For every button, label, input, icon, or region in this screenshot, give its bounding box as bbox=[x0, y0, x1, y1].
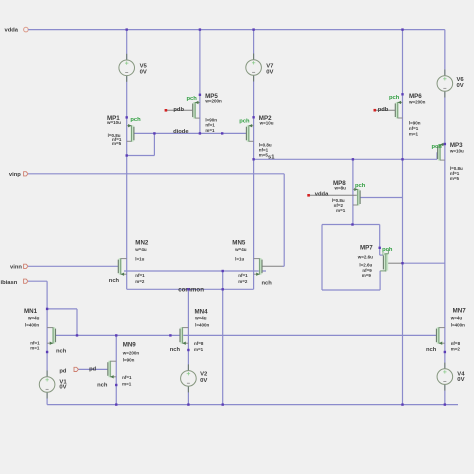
svg-text:s1: s1 bbox=[268, 154, 275, 160]
svg-text:vdda: vdda bbox=[315, 192, 329, 198]
junction MP7 bulk/s1 column bbox=[401, 262, 403, 264]
junction bulk tie/common column bbox=[222, 270, 224, 272]
wire vss rail bbox=[47, 404, 458, 406]
svg-text:m=9: m=9 bbox=[362, 273, 372, 278]
io pin vdda bbox=[24, 27, 29, 32]
svg-text:m=5: m=5 bbox=[112, 141, 122, 146]
svg-text:V2: V2 bbox=[200, 371, 208, 377]
junction MN1 source pin bbox=[46, 351, 48, 353]
transistor MN9 bbox=[108, 361, 116, 379]
svg-text:pd: pd bbox=[89, 367, 97, 373]
junction MP1 drain loop bbox=[126, 154, 128, 156]
junction bias/MN9 drain bbox=[115, 334, 117, 336]
svg-text:nf=8: nf=8 bbox=[194, 341, 204, 346]
wire V7 column top bbox=[253, 30, 255, 60]
wire vinp vertical jog bbox=[283, 174, 285, 266]
voltage source V5 bbox=[119, 54, 135, 82]
svg-text:pd: pd bbox=[59, 369, 67, 375]
io pin vinp bbox=[24, 172, 28, 176]
transistor MP5 bbox=[193, 101, 200, 119]
svg-text:l=1u: l=1u bbox=[135, 256, 144, 261]
wire bulk tie bbox=[124, 270, 266, 272]
svg-text:w=4u: w=4u bbox=[27, 316, 40, 321]
svg-text:0V: 0V bbox=[266, 69, 273, 75]
wire diode net bbox=[134, 132, 247, 134]
svg-text:m=1: m=1 bbox=[336, 208, 346, 213]
wire box bottom edge bbox=[322, 289, 380, 291]
svg-text:pdb: pdb bbox=[173, 107, 184, 113]
wire V4 to rail bbox=[444, 384, 446, 404]
wire pd to MN9 gate bbox=[79, 368, 109, 370]
svg-text:vinn: vinn bbox=[10, 265, 22, 271]
junction MN4 source pin bbox=[187, 349, 189, 351]
svg-text:0V: 0V bbox=[200, 378, 207, 384]
svg-text:m=1: m=1 bbox=[205, 128, 215, 133]
svg-text:0V: 0V bbox=[457, 377, 464, 383]
svg-text:nf=1: nf=1 bbox=[122, 375, 132, 380]
transistor MN2 bbox=[118, 258, 126, 276]
svg-text:w=10u: w=10u bbox=[449, 149, 464, 154]
wire V2 to rail bbox=[187, 386, 189, 404]
svg-text:nch: nch bbox=[426, 347, 437, 353]
svg-text:common: common bbox=[178, 286, 204, 293]
svg-text:l=400n: l=400n bbox=[451, 323, 465, 328]
wire MP1 gate loop vertical bbox=[153, 133, 155, 155]
svg-text:0V: 0V bbox=[457, 83, 464, 89]
svg-text:0V: 0V bbox=[140, 70, 147, 76]
wire vinp to MN5 gate pin bbox=[283, 265, 285, 267]
svg-text:nf=1: nf=1 bbox=[238, 273, 248, 278]
svg-text:m=2: m=2 bbox=[135, 279, 145, 284]
junction diode/MP2 gate pin bbox=[221, 132, 223, 134]
svg-text:m=2: m=2 bbox=[238, 279, 248, 284]
svg-text:l=90n: l=90n bbox=[123, 357, 135, 362]
svg-text:m=2: m=2 bbox=[451, 346, 461, 351]
svg-text:pch: pch bbox=[382, 247, 393, 253]
svg-text:l=90n: l=90n bbox=[409, 121, 421, 126]
svg-text:m=1: m=1 bbox=[194, 347, 204, 352]
junction MP5 source pin bbox=[199, 94, 201, 96]
svg-text:pch: pch bbox=[355, 183, 366, 189]
svg-text:w=2.6u: w=2.6u bbox=[357, 255, 373, 260]
junction common/vss column bbox=[222, 288, 224, 290]
transistor MN7 bbox=[436, 327, 444, 345]
wire vinn to MN2 gate bbox=[28, 265, 119, 267]
wire box right upper (MP7 gate) bbox=[379, 225, 381, 256]
svg-text:MP7: MP7 bbox=[360, 245, 373, 252]
wire MN1 diode loop top bbox=[47, 308, 77, 310]
wire s1 to vss column bbox=[402, 159, 404, 404]
junction s1/MP8 source bbox=[352, 158, 354, 160]
transistor MP6 bbox=[395, 101, 402, 119]
red pin dot pdb at MP5 bbox=[165, 109, 168, 112]
junction box top/MP8 drain bbox=[351, 223, 353, 225]
svg-text:diode: diode bbox=[173, 129, 189, 135]
svg-text:w=10u: w=10u bbox=[259, 121, 274, 126]
transistor MP7 bbox=[380, 249, 388, 272]
junction MP3 source pin bbox=[444, 143, 446, 145]
junction vdda/V5 bbox=[126, 28, 128, 30]
junction bias/MN4 gate bbox=[169, 334, 171, 336]
wire MP7 bulk stub bbox=[387, 262, 403, 264]
red pin dot pdb at MP6 bbox=[374, 109, 377, 112]
voltage source V2 bbox=[181, 364, 197, 392]
svg-text:w=10u: w=10u bbox=[106, 120, 121, 125]
junction MN1 gate/bias bbox=[76, 334, 78, 336]
junction s1/MP2 drain bbox=[252, 158, 254, 160]
svg-text:nf=1: nf=1 bbox=[205, 123, 215, 128]
junction box right/MP7 gate bbox=[379, 247, 381, 249]
junction MP6 source pin bbox=[401, 93, 403, 95]
transistor MP3 bbox=[438, 143, 445, 161]
svg-text:m=5: m=5 bbox=[450, 176, 460, 181]
io pin pd bbox=[74, 367, 78, 371]
wire MN7 to V4 bbox=[444, 352, 446, 369]
wire MP1 gate loop horizontal bbox=[127, 155, 155, 157]
svg-text:nf=1: nf=1 bbox=[135, 273, 145, 278]
svg-text:w=4u: w=4u bbox=[134, 247, 147, 252]
voltage source V4 bbox=[437, 363, 453, 391]
io pin ibiasn bbox=[24, 279, 28, 283]
svg-text:MN7: MN7 bbox=[453, 307, 467, 314]
svg-text:nch: nch bbox=[170, 347, 181, 353]
junction vss/MN9 bbox=[115, 403, 117, 405]
svg-text:w=4u: w=4u bbox=[234, 247, 247, 252]
wire MP2/MN5 column bbox=[253, 75, 255, 289]
wire V1 to rail bbox=[46, 392, 48, 404]
wire MP8 source column bbox=[352, 159, 354, 224]
junction diode/MP1 loop bbox=[153, 132, 155, 134]
junction common/MN4 drain bbox=[187, 288, 189, 290]
svg-text:nch: nch bbox=[109, 278, 120, 284]
wire MN1 diode loop down bbox=[76, 309, 78, 336]
svg-text:nch: nch bbox=[97, 383, 108, 389]
MN5 gate pin bbox=[262, 265, 283, 267]
svg-text:ibiasn: ibiasn bbox=[1, 280, 18, 286]
wire MP1/MN2 column bbox=[126, 76, 128, 290]
svg-text:w=8u: w=8u bbox=[334, 186, 347, 191]
wire ibiasn down bbox=[46, 281, 48, 309]
svg-text:MN4: MN4 bbox=[195, 308, 209, 315]
wire MP8 gate bbox=[360, 197, 402, 199]
svg-text:m=1: m=1 bbox=[122, 382, 132, 387]
wire box right lower (MP7 drain) bbox=[379, 271, 381, 290]
wire vinp horizontal bbox=[28, 173, 284, 175]
wire MP7 bulk to right column bbox=[403, 262, 445, 264]
wire MN4 column bbox=[187, 289, 189, 350]
wire ibiasn horizontal bbox=[28, 280, 47, 282]
junction MN7 source pin bbox=[444, 351, 446, 353]
wire MN9 column bbox=[115, 335, 117, 404]
wire bias net bbox=[56, 334, 437, 336]
wire MN1 column bbox=[46, 309, 48, 352]
transistor MP8 bbox=[353, 188, 360, 206]
wire common to vss column bbox=[222, 271, 224, 405]
wire MP7 gate jog bbox=[380, 254, 384, 256]
svg-text:MN5: MN5 bbox=[232, 239, 246, 246]
svg-text:w=200n: w=200n bbox=[408, 99, 426, 104]
svg-text:pch: pch bbox=[239, 119, 250, 125]
wire V5 column top bbox=[126, 30, 128, 60]
junction vss/s1 column bbox=[401, 403, 403, 405]
wire MP6 gate pin to pdb bbox=[375, 109, 395, 111]
svg-text:vinp: vinp bbox=[9, 172, 21, 178]
svg-text:m=5: m=5 bbox=[259, 153, 269, 158]
svg-text:m=1: m=1 bbox=[30, 346, 40, 351]
voltage source V1 bbox=[39, 371, 55, 399]
junction vdda/MP5 bbox=[199, 28, 201, 30]
io pin vinn bbox=[24, 264, 28, 268]
voltage source V7 bbox=[246, 54, 262, 82]
wire V6 to MP3/MN7 column bbox=[444, 91, 446, 352]
wire MP6 column bbox=[402, 30, 404, 160]
junction MN9 source pin bbox=[115, 384, 117, 386]
wire MN1 to V1 bbox=[46, 352, 48, 377]
svg-text:0V: 0V bbox=[59, 384, 66, 390]
svg-text:pch: pch bbox=[432, 144, 443, 150]
svg-text:nch: nch bbox=[262, 281, 273, 287]
wire MP5 column bbox=[199, 30, 201, 134]
junction MP2 source pin bbox=[252, 116, 254, 118]
svg-text:nf=8: nf=8 bbox=[451, 341, 461, 346]
svg-text:nf=1: nf=1 bbox=[409, 126, 419, 131]
red pin dot vdda at MP8 bulk bbox=[307, 194, 310, 197]
wire MP3 gate stub bbox=[436, 151, 439, 153]
wire MP8 bulk stub to vdda label bbox=[309, 194, 358, 196]
junction s1/MP6 drain bbox=[401, 158, 403, 160]
junction vdda/MP6 bbox=[401, 28, 403, 30]
transistor MP2 bbox=[246, 124, 253, 142]
wire s1 jog up to MP3 gate bbox=[436, 152, 438, 159]
wire box left edge bbox=[321, 225, 323, 291]
svg-text:w=200n: w=200n bbox=[122, 350, 140, 355]
svg-text:m=1: m=1 bbox=[409, 132, 419, 137]
svg-text:l=400n: l=400n bbox=[195, 323, 209, 328]
svg-text:MN2: MN2 bbox=[135, 239, 149, 246]
junction vss/V4 bbox=[444, 403, 446, 405]
wire vdda rail drop to V6 bbox=[444, 30, 446, 76]
wire MN4 to V2 bbox=[187, 350, 189, 371]
voltage source V6 bbox=[437, 70, 453, 98]
svg-text:pch: pch bbox=[130, 117, 141, 123]
junction diode/MP5 drain bbox=[199, 132, 201, 134]
wire box top edge bbox=[322, 224, 380, 226]
svg-text:w=4u: w=4u bbox=[450, 316, 463, 321]
wire MP5 gate pin to pdb bbox=[166, 109, 193, 111]
svg-text:pch: pch bbox=[187, 96, 198, 102]
junction vdda/V7 bbox=[252, 28, 254, 30]
transistor MN1 bbox=[47, 327, 55, 345]
transistor MP1 bbox=[127, 124, 134, 142]
svg-text:w=4u: w=4u bbox=[194, 316, 207, 321]
svg-text:MN1: MN1 bbox=[24, 308, 38, 315]
svg-text:l=1u: l=1u bbox=[235, 256, 244, 261]
svg-text:nch: nch bbox=[56, 349, 67, 355]
svg-text:pch: pch bbox=[389, 95, 400, 101]
transistor MN4 bbox=[180, 327, 188, 345]
svg-text:vdda: vdda bbox=[5, 28, 19, 34]
wire vdda rail bbox=[28, 29, 445, 31]
svg-text:pdb: pdb bbox=[378, 107, 389, 113]
svg-text:MN9: MN9 bbox=[123, 342, 137, 349]
wire s1 net bbox=[254, 158, 437, 160]
junction ibiasn/MN1 drain bbox=[46, 308, 48, 310]
svg-text:w=200n: w=200n bbox=[204, 98, 222, 103]
junction vss/common bbox=[222, 403, 224, 405]
svg-text:l=400n: l=400n bbox=[25, 323, 39, 328]
wire common net bbox=[127, 288, 254, 290]
junction vss/V2 bbox=[187, 403, 189, 405]
transistor MN5 bbox=[254, 258, 262, 276]
junction MP1 source pin bbox=[126, 116, 128, 118]
